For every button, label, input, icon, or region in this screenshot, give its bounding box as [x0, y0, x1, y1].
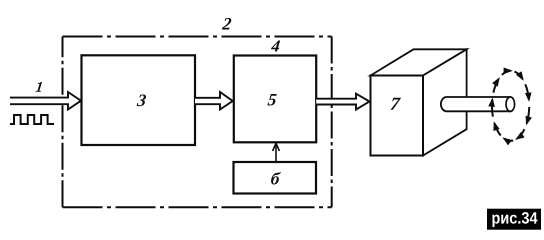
arrow from 5 to 7 — [316, 94, 369, 110]
label 4 — [271, 41, 280, 52]
label 1 — [35, 82, 42, 92]
arrow from 3 to 5 — [195, 92, 233, 110]
figure label box — [487, 209, 541, 230]
square wave pulse symbol — [10, 115, 54, 124]
shaft end cap — [506, 97, 515, 111]
arrow from 6 up to 5 — [273, 143, 280, 162]
dash-dot boundary box 2 — [63, 37, 332, 208]
label 6 — [271, 172, 281, 185]
label 2 — [222, 18, 232, 30]
block 5 — [234, 56, 316, 143]
label 3 — [137, 95, 147, 107]
motor block 7 top face — [371, 49, 467, 75]
motor block 7 right face — [423, 49, 467, 155]
input arrow 1 — [10, 92, 81, 110]
label 7 — [391, 98, 401, 110]
shaft (cylinder) — [441, 97, 514, 111]
motor block 7 front face — [371, 76, 424, 156]
label 5 — [267, 94, 277, 106]
rotation ellipse (dashed arcs with arrowheads, clockwise) — [492, 71, 529, 141]
block 6 — [234, 162, 317, 194]
block 3 — [82, 55, 196, 145]
